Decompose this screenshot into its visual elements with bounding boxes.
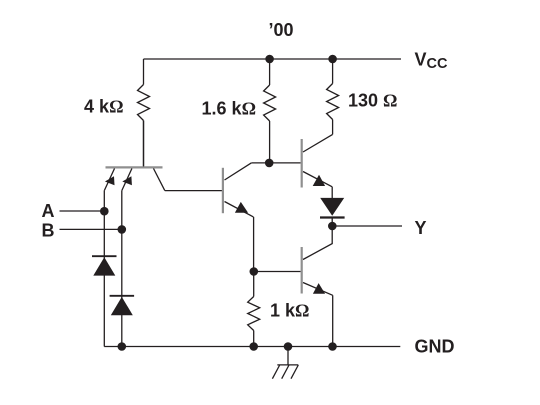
transistor Q2 collector <box>225 163 252 180</box>
transistor Q2 emitter <box>225 202 254 217</box>
transistor Q3 emitter <box>303 172 332 187</box>
svg-text:A: A <box>42 201 55 221</box>
transistor Q4 emitter arrow <box>313 283 325 294</box>
transistor Q1 emitter 2 <box>122 169 132 191</box>
transistor Q3 collector to R3 <box>303 134 333 152</box>
transistor Q1 emitter 1 <box>104 169 114 191</box>
wire GND rail <box>104 346 400 348</box>
svg-text:B: B <box>42 220 55 240</box>
node GND junction input B <box>118 342 127 351</box>
node Q2 emitter junction <box>250 267 259 276</box>
transistor Q1 base bar <box>106 166 163 168</box>
transistor Q3 emitter arrow <box>313 175 325 186</box>
wire input B <box>60 228 122 230</box>
diode D1 input A clamp <box>92 256 117 275</box>
svg-text:1.6 kΩ: 1.6 kΩ <box>202 99 256 119</box>
wire input A <box>60 210 105 212</box>
node GND junction Q4 emitter <box>328 342 337 351</box>
wire Q1 collector to Q2 base <box>165 190 223 192</box>
transistor Q1 emitter 2 arrow <box>122 176 132 185</box>
wire Q2 collector to node and Q3 base <box>251 162 300 164</box>
resistor R1 4 kOhm <box>138 59 150 167</box>
svg-text:1 kΩ: 1 kΩ <box>270 301 309 321</box>
svg-text:’00: ’00 <box>269 20 294 40</box>
node input B junction <box>118 225 127 234</box>
wire VCC rail <box>144 58 402 60</box>
wire Q4 emitter to GND <box>332 295 334 346</box>
node Y junction <box>328 222 337 231</box>
node Q2 collector junction <box>265 159 274 168</box>
wire Q2 emitter down to node <box>253 217 255 272</box>
transistor Q4 emitter <box>303 283 333 296</box>
transistor Q1 collector <box>154 169 165 191</box>
node VCC junction R2 <box>265 55 274 64</box>
transistor Q2 emitter arrow <box>235 202 248 213</box>
transistor Q4 collector <box>303 226 332 260</box>
wire Q1 base lead from R1 <box>143 121 145 167</box>
resistor R2 1.6 kOhm <box>264 59 276 163</box>
node input A junction <box>100 207 109 216</box>
svg-text:GND: GND <box>415 336 455 356</box>
diode D2 input B clamp <box>110 296 135 315</box>
svg-text:4 kΩ: 4 kΩ <box>84 96 123 116</box>
svg-text:VCC: VCC <box>415 49 448 72</box>
node GND junction R4 <box>249 342 258 351</box>
transistor Q1 emitter 1 arrow <box>105 176 115 185</box>
svg-text:Y: Y <box>415 218 427 238</box>
wire Q3 emitter to D3 <box>331 187 333 198</box>
transistor Q3 base bar <box>301 139 303 188</box>
node VCC junction R3 <box>328 55 337 64</box>
resistor R3 130 Ohm <box>327 59 339 134</box>
resistor R4 1 kOhm <box>248 272 260 347</box>
wire node to Q4 base <box>254 271 301 273</box>
node GND junction ground stub <box>284 342 293 351</box>
wire input B vertical line <box>121 190 123 346</box>
wire input A vertical line <box>103 190 105 346</box>
diode D3 output level shift <box>320 198 345 226</box>
transistor Q2 base bar <box>222 168 224 213</box>
svg-text:130 Ω: 130 Ω <box>348 91 397 111</box>
transistor Q4 base bar <box>301 247 303 294</box>
ground <box>272 347 298 379</box>
wire output Y <box>332 225 402 227</box>
